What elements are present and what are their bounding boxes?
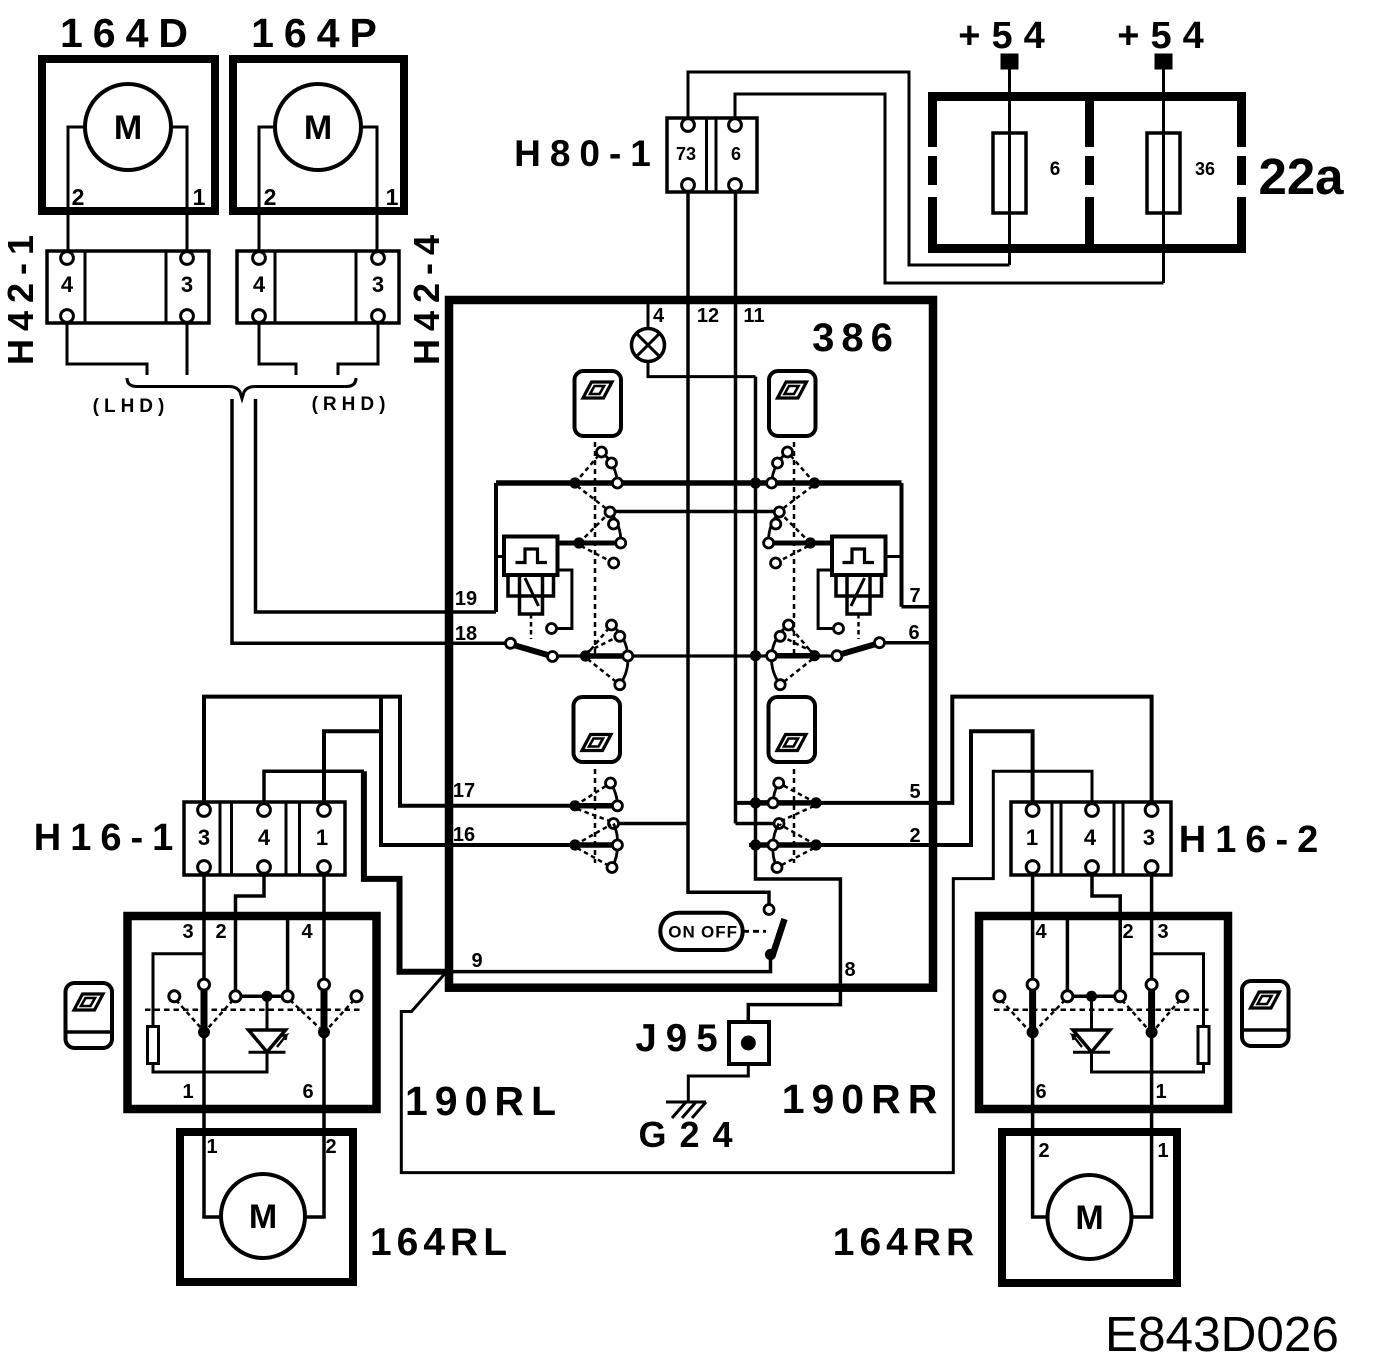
svg-text:12: 12 — [697, 305, 719, 327]
pin label 16 — [453, 824, 475, 846]
splice J95 — [729, 1022, 769, 1064]
wire pin7 riser — [900, 483, 904, 607]
pin label 4 (H42-1) — [61, 272, 74, 297]
wire H42-4 pin3 to brace — [338, 321, 378, 375]
junction dots on node 8 wire — [750, 477, 761, 850]
wire node 8 vertical / pin8 to J95 — [748, 377, 840, 1022]
wire 386 pin12 (from H80-1 73) to ON/OFF — [688, 192, 769, 905]
label 190RR — [782, 1076, 945, 1122]
internal wire 190RL mid — [286, 916, 290, 996]
svg-text:H16-1: H16-1 — [34, 817, 183, 859]
pin label 1 (164RR) — [1157, 1140, 1168, 1162]
svg-text:1: 1 — [206, 1136, 217, 1158]
svg-text:190RL: 190RL — [405, 1078, 563, 1124]
switch rear-left down — [569, 824, 622, 873]
wire 386 pin5 to H16-2 pin3 — [736, 697, 1152, 805]
fuse box 22a — [928, 92, 1246, 253]
label H16-2 — [1179, 819, 1328, 861]
pin label 9 — [471, 950, 482, 972]
pin label 1 (H16-2) — [1026, 825, 1038, 850]
svg-text:3: 3 — [372, 272, 384, 297]
pin label 6 (190RR) — [1035, 1081, 1046, 1103]
pin label 11 — [743, 305, 764, 327]
toggle contact 18 — [506, 638, 516, 648]
wire H16-1 pin1 riser — [324, 731, 381, 804]
svg-text:164RR: 164RR — [833, 1221, 979, 1264]
dashed lever 190RL c — [290, 1000, 320, 1028]
svg-text:6: 6 — [731, 144, 741, 164]
svg-text:190RR: 190RR — [782, 1076, 945, 1122]
label 22a — [1258, 148, 1344, 205]
wire relay-left to contact — [547, 570, 572, 634]
connector H16-1 — [184, 802, 345, 875]
pin label 4 (H16-1) — [258, 825, 271, 850]
fuse value 36 — [1195, 159, 1215, 179]
connector H80-1 — [667, 118, 757, 192]
pin label 3 (190RL) — [182, 921, 193, 943]
switch front-right down-fan — [764, 507, 832, 568]
svg-text:1: 1 — [1157, 1140, 1168, 1162]
dashed actuator line front-left — [594, 442, 597, 654]
pin label 2 (164P) — [264, 184, 277, 210]
svg-text:(LHD): (LHD) — [93, 396, 170, 417]
contact circles 190RR — [994, 979, 1188, 1002]
LED 190RR — [1073, 996, 1111, 1052]
label 164D — [60, 10, 198, 56]
svg-text:164RL: 164RL — [370, 1221, 512, 1264]
wire H16-1 pin3 to 386 pin17 — [204, 697, 622, 806]
svg-text:164P: 164P — [251, 10, 387, 56]
pin label 18 — [455, 623, 477, 645]
front contact rail (pin19 to pin7) — [496, 480, 902, 486]
svg-text:22a: 22a — [1258, 148, 1344, 205]
svg-text:+54: +54 — [1117, 15, 1214, 57]
dashed actuator line front-right — [793, 442, 796, 654]
fuse 6 — [993, 69, 1026, 265]
wire J95 to ground — [688, 1064, 748, 1102]
svg-text:OFF: OFF — [701, 923, 738, 942]
switch pack 190RL box — [128, 916, 377, 1109]
wire 164P M to pin 1 — [361, 127, 377, 253]
wire 190RR pin1 to motor — [1132, 1034, 1152, 1217]
pin label 5 — [909, 781, 920, 803]
svg-text:3: 3 — [1143, 825, 1155, 850]
cross wire front switches — [616, 510, 774, 514]
svg-text:M: M — [114, 109, 142, 147]
wire 386 pin6 — [884, 641, 933, 645]
drawing number E843D026 — [1105, 1307, 1339, 1362]
svg-text:(RHD): (RHD) — [312, 394, 391, 415]
pin label 4 (H42-4) — [253, 272, 266, 297]
label (LHD) — [93, 396, 170, 417]
wire H42-1 pin3 to brace — [186, 321, 189, 375]
window icon front-right — [769, 371, 816, 436]
pin label 4 (H16-2) — [1084, 825, 1097, 850]
wire 386 pin18 — [449, 642, 506, 646]
toggle lever 6 — [840, 644, 876, 655]
svg-text:2: 2 — [1122, 921, 1133, 943]
window icon rear-left — [574, 697, 621, 762]
cross wire rear-left to pin12 wire — [609, 819, 689, 829]
svg-text:2: 2 — [264, 184, 277, 210]
relay/timer block left — [496, 537, 558, 640]
relay/timer block right — [832, 537, 902, 640]
svg-text:73: 73 — [676, 144, 696, 164]
label 190RL — [405, 1078, 563, 1124]
wire 386 pin7 stub — [902, 605, 934, 609]
pin label 2 (190RR) — [1122, 921, 1133, 943]
label +54 (left) — [958, 15, 1055, 57]
svg-text:+54: +54 — [958, 15, 1055, 57]
label 386 — [812, 316, 900, 360]
brace LHD/RHD — [127, 378, 356, 399]
svg-text:1: 1 — [1026, 825, 1038, 850]
motor unit 164RL box — [180, 1132, 353, 1282]
pin label 3 (H16-1) — [198, 825, 210, 850]
svg-text:36: 36 — [1195, 159, 1215, 179]
connector H16-2 — [1011, 802, 1171, 875]
wire 386 pin9 — [453, 955, 771, 972]
label 164RL — [370, 1221, 512, 1264]
dashed lever 190RR b — [1038, 1000, 1065, 1028]
switch front-right mid-fan — [767, 620, 821, 690]
switch rear-right up — [768, 778, 822, 821]
wire 386 pin11 (from H80-1 6) — [734, 192, 738, 824]
pin label 4 (190RL) — [301, 921, 313, 943]
resistor 190RL — [148, 954, 268, 1072]
contact bar 190RR right — [1146, 985, 1158, 1039]
wire lamp to node 8 — [648, 362, 756, 377]
switch front-left down-fan — [558, 507, 626, 568]
pin label 1 (164RL) — [206, 1136, 217, 1158]
svg-text:G24: G24 — [638, 1114, 745, 1155]
wire H16-1 pin4 to 190RL pin2 — [236, 873, 265, 997]
pin label 2 (164RR) — [1038, 1140, 1049, 1162]
label H80-1 — [514, 133, 660, 174]
wire H80-1 pin6 to fuse 36 — [735, 94, 1164, 283]
window icon front-left — [575, 371, 622, 436]
pin label 4 (190RR) — [1035, 921, 1047, 943]
dashed lever 190RR c — [1122, 1000, 1147, 1028]
svg-text:H42-1: H42-1 — [0, 227, 41, 365]
pin label 2 (164D) — [72, 184, 85, 210]
wire H16-2 pin3 to 190RR pin3 — [1150, 873, 1154, 985]
pin label 1 (164D) — [193, 184, 206, 210]
wire 386 pin2 to H16-2 pin1 — [749, 731, 1033, 845]
dashed coupling 190RR — [994, 1008, 1210, 1011]
dashed lever 190RL d — [329, 1000, 355, 1028]
wire H80-1 pin73 to fuse 6 — [688, 72, 1010, 265]
window icon rear-right — [769, 697, 816, 762]
svg-text:3: 3 — [181, 272, 193, 297]
switch front-left mid-fan — [580, 620, 633, 690]
wire H16-1 pin1 to 190RL pin4 — [322, 873, 326, 985]
wire 190RR pin6 to motor — [1033, 1034, 1048, 1217]
pin label 17 — [453, 780, 475, 802]
switch rear-left up — [569, 778, 622, 821]
svg-text:3: 3 — [198, 825, 210, 850]
label (RHD) — [312, 394, 391, 415]
svg-text:H16-2: H16-2 — [1179, 819, 1328, 861]
switch front-left up-fan — [569, 447, 622, 510]
svg-text:H80-1: H80-1 — [514, 133, 660, 174]
pin label 7 — [909, 585, 920, 607]
wire node9 branch to H16-2 pin4 — [401, 771, 1092, 1172]
pin label 2 (164RL) — [325, 1136, 336, 1158]
svg-text:386: 386 — [812, 316, 900, 360]
label H42-1 — [0, 227, 41, 365]
label H42-4 — [406, 227, 447, 365]
contact circles 190RL — [169, 979, 362, 1002]
wire 164D M to pin 1 — [171, 127, 187, 253]
window icon at 190RL — [66, 983, 113, 1048]
motor M 164P — [275, 84, 361, 170]
svg-text:9: 9 — [471, 950, 482, 972]
svg-text:2: 2 — [325, 1136, 336, 1158]
svg-text:6: 6 — [302, 1081, 313, 1103]
svg-text:11: 11 — [743, 305, 764, 327]
wire H16-1 pin4 to 386 pin9 (thick) — [264, 771, 445, 972]
svg-text:3: 3 — [1157, 921, 1168, 943]
fuse value 6 — [1050, 159, 1061, 180]
label G24 — [638, 1114, 745, 1155]
pin label 4 — [653, 305, 665, 327]
dashed actuator line rear-left — [594, 769, 597, 863]
svg-text:6: 6 — [1035, 1081, 1046, 1103]
label H16-1 — [34, 817, 183, 859]
switch pack 190RR box — [979, 916, 1228, 1109]
connector H42-4 — [237, 251, 399, 323]
lamp (illumination) — [632, 329, 665, 362]
wire 190RL pin6 to motor — [305, 1034, 324, 1217]
wire H16-2 pin4 to 190RR pin2 — [1092, 873, 1120, 997]
junction dot 190RR — [1073, 991, 1114, 1002]
label 164P — [251, 10, 387, 56]
svg-text:1: 1 — [1155, 1081, 1166, 1103]
svg-text:1: 1 — [182, 1081, 193, 1103]
motor unit 164P box — [233, 59, 404, 211]
svg-text:5: 5 — [909, 781, 920, 803]
wire H42-1 pin4 to brace — [67, 321, 147, 375]
pin label 2 (190RL) — [215, 921, 226, 943]
contact bar 190RL left — [198, 985, 210, 1039]
LED 190RL — [249, 996, 287, 1052]
svg-text:6: 6 — [908, 622, 919, 644]
internal wire 190RR mid — [1066, 916, 1070, 996]
svg-text:M: M — [304, 109, 332, 147]
dashed coupling 190RL — [145, 1008, 361, 1011]
wire relay-right to contact — [818, 570, 843, 634]
svg-text:8: 8 — [844, 959, 855, 981]
fuse 36 — [1147, 69, 1180, 283]
pin label 3 (H42-1) — [181, 272, 193, 297]
svg-text:4: 4 — [258, 825, 271, 850]
connector H42-1 — [47, 251, 209, 323]
svg-text:4: 4 — [1035, 921, 1047, 943]
ground G24 — [666, 1102, 706, 1118]
pin label 1 (190RL) — [182, 1081, 193, 1103]
pin label 8 — [844, 959, 855, 981]
pin label 6 (190RL) — [302, 1081, 313, 1103]
pin label 12 — [697, 305, 719, 327]
wire 164P M to pin 2 — [259, 127, 275, 253]
svg-text:17: 17 — [453, 780, 475, 802]
svg-text:H42-4: H42-4 — [406, 227, 447, 365]
pin label 1 (190RR) — [1155, 1081, 1166, 1103]
pin label 3 (190RR) — [1157, 921, 1168, 943]
dashed lever 190RR a — [1001, 1000, 1027, 1028]
pin label 19 — [455, 588, 477, 610]
dashed link ON/OFF — [743, 930, 766, 933]
switch front-right up-fan — [767, 447, 821, 510]
motor M 164D — [85, 84, 171, 170]
wire 190RL pin1 to motor — [204, 1034, 221, 1217]
pin label 73 (H80-1) — [676, 144, 696, 164]
svg-text:19: 19 — [455, 588, 477, 610]
svg-text:4: 4 — [301, 921, 313, 943]
pin label 2 (right) — [909, 825, 920, 847]
svg-text:3: 3 — [182, 921, 193, 943]
motor unit 164D box — [42, 59, 215, 211]
label +54 (right) — [1117, 15, 1214, 57]
svg-text:164D: 164D — [60, 10, 198, 56]
svg-text:2: 2 — [1038, 1140, 1049, 1162]
svg-text:16: 16 — [453, 824, 475, 846]
ON/OFF lever — [773, 919, 785, 954]
terminal +54 (left) — [1001, 54, 1018, 69]
wire H16-1 pin3 to 190RL pin3 — [202, 873, 206, 985]
ON/OFF pivot dot — [765, 949, 776, 960]
mid contact rail — [553, 654, 837, 658]
svg-text:4: 4 — [61, 272, 74, 297]
svg-text:6: 6 — [1050, 159, 1061, 180]
motor M 164RL — [221, 1174, 305, 1258]
toggle pivot circle right — [832, 651, 842, 661]
wire H42-4 pin4 to brace — [259, 321, 296, 375]
dashed actuator line rear-right — [793, 769, 796, 863]
svg-text:4: 4 — [253, 272, 266, 297]
contact bar 190RR left — [1027, 985, 1039, 1039]
pin label 3 (H16-2) — [1143, 825, 1155, 850]
wire brace to 386 pin18 — [232, 399, 449, 643]
svg-text:M: M — [1075, 1199, 1103, 1237]
svg-text:2: 2 — [72, 184, 85, 210]
window icon at 190RR — [1242, 981, 1289, 1046]
svg-text:E843D026: E843D026 — [1105, 1307, 1339, 1362]
pin label 1 (164P) — [386, 184, 399, 210]
label 164RR — [833, 1221, 979, 1264]
wire 164D M to pin 2 — [68, 127, 85, 253]
dashed lever 190RL b — [208, 1000, 233, 1028]
wire pin19 riser — [494, 483, 498, 612]
label J95 — [635, 1017, 726, 1060]
terminal +54 (right) — [1155, 54, 1172, 69]
dashed lever 190RR d — [1156, 1000, 1180, 1028]
toggle lever 18 — [514, 645, 550, 656]
junction dot 190RL — [241, 991, 282, 1002]
svg-text:7: 7 — [909, 585, 920, 607]
ON OFF legend — [660, 913, 742, 950]
svg-text:M: M — [249, 1198, 277, 1236]
cross wire rear-right to pin11 wire — [736, 819, 785, 829]
motor M 164RR — [1048, 1175, 1132, 1259]
wire 386 pin4 to lamp — [647, 304, 650, 329]
motor unit 164RR box — [1002, 1132, 1177, 1283]
svg-text:1: 1 — [386, 184, 399, 210]
pin label 1 (H16-1) — [316, 825, 328, 850]
wire brace to 386 pin19 — [256, 399, 497, 612]
svg-text:4: 4 — [1084, 825, 1097, 850]
dashed lever 190RL a — [176, 1000, 201, 1028]
svg-text:1: 1 — [193, 184, 206, 210]
pin label 3 (H42-4) — [372, 272, 384, 297]
switch unit 386 box — [449, 300, 933, 988]
wire riser to 386 pin16 — [381, 699, 622, 846]
svg-text:J95: J95 — [635, 1017, 726, 1060]
switch rear-right down — [768, 824, 822, 873]
toggle contact 6 — [875, 638, 885, 648]
svg-text:ON: ON — [668, 923, 696, 942]
contact bar 190RL right — [318, 985, 330, 1039]
pin label 6 (H80-1) — [731, 144, 741, 164]
wire H16-2 pin1 to 190RR pin4 — [1031, 873, 1035, 985]
pin label 6 (right) — [908, 622, 919, 644]
toggle pivot circle left — [548, 652, 558, 662]
svg-text:4: 4 — [653, 305, 665, 327]
resistor 190RR — [1092, 954, 1210, 1072]
ON/OFF contact — [764, 905, 774, 915]
svg-text:1: 1 — [316, 825, 328, 850]
svg-text:2: 2 — [215, 921, 226, 943]
